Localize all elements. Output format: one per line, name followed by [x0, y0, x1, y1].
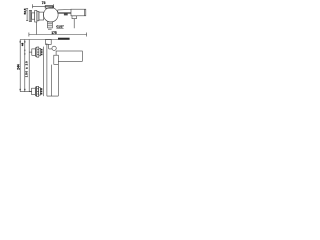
dim line 73 — [33, 4, 54, 8]
lower connection stub — [29, 91, 31, 93]
top line — [20, 39, 58, 41]
bottom extension line — [20, 91, 31, 93]
lever bar (thick) — [58, 38, 70, 40]
upper bar1 — [36, 48, 37, 57]
G1/2 threaded stub — [48, 22, 53, 28]
vertical dim line 53,5 — [26, 9, 28, 21]
svg-text:G1/2": G1/2" — [56, 24, 64, 28]
hex nut — [35, 10, 37, 22]
lower escutcheon square — [32, 88, 36, 94]
cartridge base rect — [46, 40, 52, 45]
collar — [39, 12, 44, 20]
wall escutcheon (front) — [29, 10, 31, 21]
upper escutcheon square — [32, 49, 36, 55]
svg-text:73: 73 — [42, 1, 46, 5]
diverter knob under bar — [64, 14, 68, 16]
hand shower head — [54, 55, 59, 64]
upper connection stub — [29, 51, 32, 53]
svg-text:53,5: 53,5 — [23, 8, 27, 14]
dim line 175 — [29, 33, 87, 37]
underline of G1/2" — [56, 27, 63, 29]
spout block (plan) — [56, 51, 82, 61]
svg-text:44: 44 — [21, 43, 25, 47]
s-union stem — [32, 13, 35, 19]
upper hex nut — [37, 47, 39, 57]
end block — [71, 9, 86, 16]
under rect of block — [72, 16, 77, 19]
extension line from nut to 175 dim — [36, 22, 38, 35]
upper bar3 — [39, 48, 41, 55]
svg-text:150 ± 20: 150 ± 20 — [25, 61, 29, 77]
lower bar1 — [35, 87, 36, 96]
lower check valves — [40, 88, 42, 90]
body tube — [44, 43, 47, 96]
lower hex nut — [37, 86, 39, 96]
spout bar — [58, 10, 71, 14]
thread relief dash under stub — [48, 28, 52, 30]
body circle — [44, 7, 59, 22]
dim line 244 — [19, 40, 21, 92]
hand shower handle / hose — [47, 64, 58, 96]
upper check valves — [41, 49, 43, 51]
hose line down — [73, 19, 75, 29]
lower bar3 — [39, 88, 41, 95]
dim line 44 / 150±20 — [24, 40, 26, 92]
wall line — [28, 40, 30, 92]
hose outlet circle — [52, 46, 56, 50]
svg-text:244: 244 — [17, 64, 21, 70]
lever tip (dark arc on top of circle) — [45, 6, 53, 8]
